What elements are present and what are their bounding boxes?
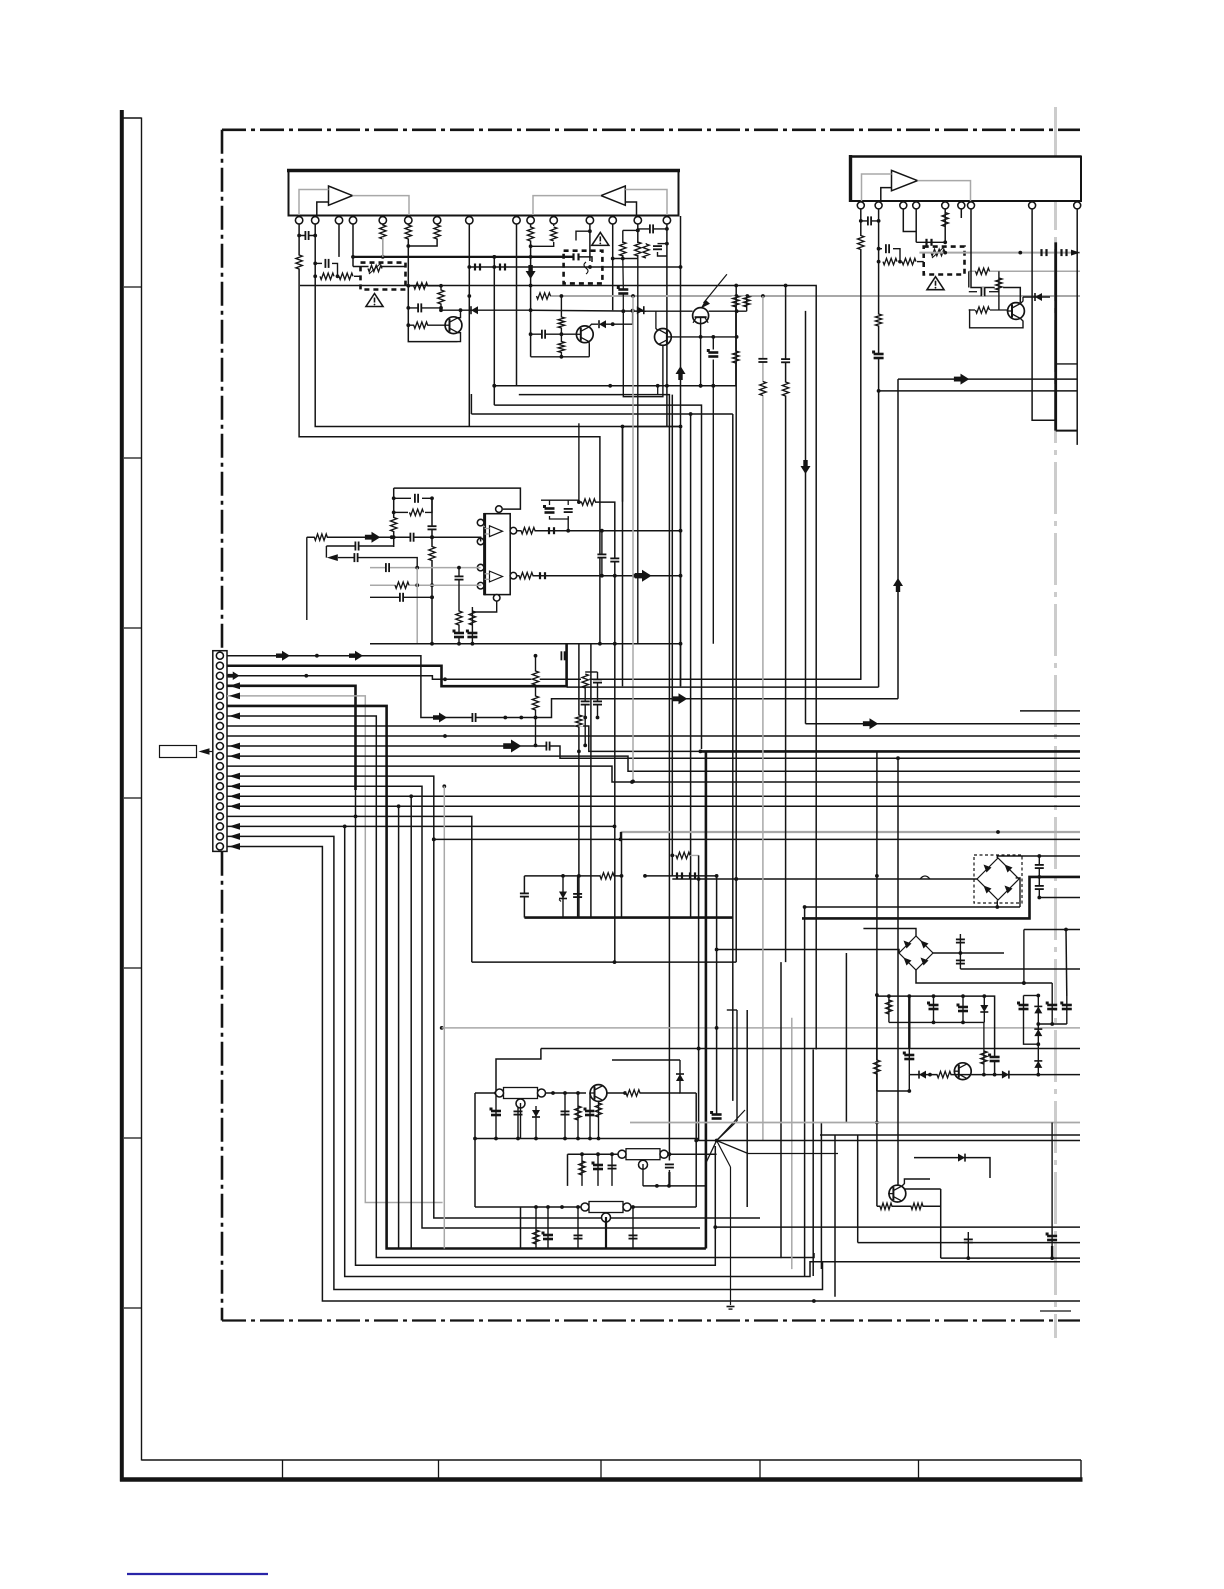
wire v736 drop [734,286,738,963]
diode bridge DB1 [974,855,1022,903]
wire C56 net [933,996,935,1022]
wire R26 row [969,309,975,311]
wire hop glyph [920,876,930,879]
wire rail y391 [879,390,1078,392]
left ruler tick 7 [124,1307,142,1309]
page border thin inner left rule [141,118,143,1461]
wire h1022 [889,1021,985,1025]
wire bridge2 top [863,929,916,937]
wire x432 rail [430,498,434,643]
rail arrow L13 [229,773,240,780]
dash-dot boundary top [222,129,1080,132]
diode D1 [471,306,478,314]
wire U3 pin6 drop [960,209,962,218]
wire y502 row [579,502,615,644]
capacitor C67 [546,742,550,751]
resistor R7 [414,283,428,289]
wire gray in B [370,583,481,587]
op-amp U1 left channel triangle [329,186,353,205]
left ruler tick 5 [124,967,142,969]
rail arrow L16 [229,803,240,810]
wire v690 [689,412,693,917]
wire v835 [834,1135,836,1297]
capacitor C43 [781,359,790,363]
wire CN pin18 rail [227,826,1080,1276]
wire U2 left rail [392,488,396,547]
wire D6 net [535,1106,537,1139]
wire input stub drop [306,537,308,620]
wire CN pin20 rail [227,846,1080,1302]
wire cluster y876 left [524,874,621,878]
series capacitor C14 [1042,249,1047,256]
resistor R22 [902,258,916,264]
capacitor C38 [520,893,529,897]
trim arrow RV1 [369,263,381,274]
U2 amp B input wires [485,574,490,580]
diode D7 [676,1074,684,1081]
wire R13 stub [645,242,647,245]
wire row y855 [672,854,698,856]
resistor R19 [733,351,739,363]
wire C50 thick stub [668,1172,670,1186]
bottom ruler tick 5 [918,1460,920,1480]
resistor R3 [339,273,353,279]
wire v813 [812,1050,814,1277]
label box arrow [199,748,213,755]
star ray S to ground [717,1141,731,1306]
wire U1 pin9 drop [516,224,518,296]
wire out1 bypass up [567,517,569,531]
diode D4 [1035,293,1042,301]
wire Q1 emitter [458,333,461,342]
wire v846 [845,953,847,1123]
resistor R16 [558,342,564,353]
wire U3 pin1-2 cap row [861,219,881,223]
wire CN pin11 rail [227,756,1080,771]
left ruler tick 3 [124,627,142,629]
input arrow L [327,554,338,561]
wire U3 pin7 net [971,209,1020,303]
wire stair y395 [519,395,672,1161]
resistor R56 [875,314,881,326]
wire x1066 col [1065,930,1068,997]
wire stair y426 ext [623,426,681,428]
page border thick bottom rule [120,1477,1083,1482]
resistor R43 [595,1103,601,1117]
dash-dot boundary bottom [222,1319,1080,1321]
capacitor C55 [903,1052,915,1060]
wire R49 net [983,1022,985,1074]
wire Q8 area [896,756,900,1185]
resistor R35 [582,499,596,505]
wire branch x411 [410,796,412,1248]
wire reg1 feed [541,1047,1080,1051]
wire C19 row2 [422,497,432,499]
rail arrow L19 [229,833,240,840]
wire v698 low [697,855,701,1140]
wire U3 pin5 net [943,209,947,244]
wire C44 net [495,1093,497,1139]
left ruler tick 6 [124,1137,142,1139]
diode bridge DB2 [899,936,933,970]
wire R43 net [598,1102,600,1139]
capacitor C16 [981,287,985,296]
capacitor C28 [543,505,555,513]
wire C52 net [577,1207,579,1249]
wire RG2 bottom [642,1164,644,1186]
wire R24 riser [968,271,970,287]
wire h1135 [820,1134,1080,1136]
wire R28 row [394,511,408,513]
transistor Q2 [576,326,594,343]
capacitor C37 [1035,885,1044,889]
capacitor C30 [597,554,606,558]
wire C16 row2 [989,291,999,293]
wire gray v633 [631,296,635,783]
wire CN pin4 rail thick [227,686,356,790]
wire R8 row [408,324,445,326]
wire Q6 right [607,1091,680,1095]
trim resistor RV1 [368,265,382,271]
wire v821 [820,1123,822,1270]
wire U2 bottom bus [370,642,681,646]
wire row y285 long [300,284,816,288]
capacitor C56 [927,1002,939,1010]
wire stair y386 drop [492,255,496,405]
wire rail y969 [960,968,1080,970]
rail arrow 1c [433,713,447,723]
wire bus y257 thick [353,255,573,259]
wire stair y405 [494,405,701,749]
wire arrow rail y379 [898,378,1077,380]
wire Q1 collector riser [440,286,442,308]
resistor R41 [575,1106,581,1120]
wire v804 low [804,907,806,1276]
wire right pair stub [1024,928,1080,932]
capacitor C17 [872,351,884,359]
wire bridge cap column [1037,856,1041,899]
wire C19 row [394,497,411,499]
capacitor C39 [573,893,582,897]
wire caps top rail [549,500,551,505]
wire R12 top [622,230,624,243]
wire loop rail y907 [803,905,1020,909]
wire gray bus y296 [543,294,1080,298]
capacitor C68 [617,286,629,294]
wire U1 pin10 net [529,224,533,357]
resistor R34 [521,528,535,534]
wire CN pin2 rail thick [227,644,567,687]
wire Q4 row [709,309,747,313]
wire C51 net [547,1207,549,1249]
wire cap row y242 [916,241,945,243]
wire v716 upper [715,876,719,1117]
capacitor C11 [867,216,871,225]
wire U1 pin15 drop [665,224,669,427]
wire bridge1 bottom loop [996,900,998,907]
wire C49 net [611,1154,613,1186]
U1 right feedback wire [625,190,667,216]
wire R12 link [623,229,640,233]
connector CN1 body [213,651,227,852]
wire v805 [805,311,807,724]
diode D11 [1034,1006,1042,1013]
wire C10 net [712,337,714,350]
transistor Q6 [589,1085,607,1102]
wire D2 to bus [606,309,634,326]
power arrow up 2 [893,578,903,592]
wire Q8 collector [902,1179,930,1186]
resistor R31 [395,582,409,588]
resistor R12 [620,242,626,256]
U2 amp A triangle [490,526,503,537]
gray fold chain line [1054,107,1057,1338]
wire C39 net [577,876,579,918]
wire Q3 collector up [656,311,659,331]
wire CN pin5 rail gray [227,696,443,1203]
bottom ruler tick 1 [282,1460,284,1480]
capacitor C24 [455,576,464,580]
wire Q2 bottom rail [531,356,590,358]
resistor R1 [296,255,302,269]
diode D14 [958,1154,965,1162]
wire nested stub 1 [1056,363,1078,365]
wire loop y546 drop [325,546,327,558]
capacitor C12 [885,244,889,253]
bottom ruler tick 2 [438,1460,440,1480]
wire h1010 [727,1009,737,1011]
wire CN pin3 rail [227,674,862,681]
wire thick bus y751 [699,750,1081,754]
wire out1 x601 drop [600,531,604,578]
power arrow down [801,460,811,474]
wire CN pin19 rail [227,836,823,1289]
wire reg1 feed step [496,1049,541,1094]
bus arrow y698 [672,693,687,704]
wire Q2 collector [589,324,598,327]
wire Q8 base row [877,1205,941,1207]
transistor Q1 [444,317,462,334]
resistor R40 [782,382,788,396]
wire R ladder bottoms [613,255,625,260]
wire stair drop 622 [622,427,624,502]
rail arrow 10 [503,740,521,753]
series capacitor C15 [1062,249,1067,256]
capacitor C65 [593,701,602,705]
wire reg3 row [475,1205,696,1209]
trim arrow RV2 [932,247,944,258]
resistor R8 [414,322,428,328]
wire v909 low [908,1075,910,1091]
resistor R58 [576,715,582,727]
wire diode row y311 ext [531,309,646,313]
wire R17 to y385 [735,307,737,386]
wire Q4 down leg [700,317,702,385]
resistor R21 [883,258,897,264]
op-amp IC U2 outline [485,513,511,595]
wire Q3 base row [672,335,739,339]
wire v940 [940,1189,942,1258]
star junction rays [696,1139,1080,1143]
wire CN pin15 rail [227,794,1080,798]
wire reg3 right up [701,1206,703,1208]
wire v876 drop [875,751,879,1206]
op-amp U1 right channel triangle [601,186,625,205]
wire U1 pin14 stub [636,224,640,243]
wire thick right bus [802,877,1080,919]
wire R18 to y311 [746,296,748,311]
resistor R28 [410,509,424,515]
wire D8 net [983,996,985,1022]
wire pin11 join [553,224,555,226]
wire v817 [815,286,817,1050]
wire U1 pin4 stub [351,224,355,267]
wire pin9 gray drop [516,296,518,386]
wire v747 [746,1010,748,1207]
wire v696 link [694,1093,698,1207]
capacitor C57 [957,1004,969,1012]
capacitor C58 [988,1054,1000,1062]
series capacitor C6 [574,253,579,260]
capacitor C45 [514,1111,523,1115]
rail arrow 1a [276,651,290,661]
wire caps top rail2 [567,500,569,505]
diode D12 [1034,1029,1042,1036]
wire U1 pin5 gray drop [382,237,384,257]
capacitor C40 [956,939,965,943]
diode D13 [1034,1061,1042,1068]
wire gray link x444 [440,786,444,1248]
bottom ruler tick 4 [759,1460,761,1480]
zener diode D5 [559,892,567,899]
wire h1258 [941,1256,1080,1260]
wire x621 riser [620,832,624,918]
wire RN stub597 [585,671,597,673]
capacitor C9 [541,330,545,339]
power arrow down 2 [526,265,536,279]
resistor R54 [582,674,588,688]
wire R28 row2 [425,498,432,512]
series capacitor C34 [677,872,682,879]
wire U1 pin12 net [588,224,592,261]
wire v590 [590,644,592,918]
series capacitor C4 [475,264,480,271]
trim pot box A [361,263,406,290]
wire C55 net [908,1048,910,1075]
wire h1189 [904,1188,941,1190]
wire cap to R ladder [332,263,339,278]
resistor R18 [744,296,750,307]
isolation box B [564,251,603,284]
capacitor C71 [354,553,358,562]
wire CN pin6 rail thick [227,706,706,1249]
page border top cap [120,117,142,119]
wire bridge1 row [672,877,977,881]
rail arrow 3 [228,672,240,681]
capacitor C49 [608,1165,617,1169]
wire x524 drop [523,876,525,918]
wire star column top [578,423,580,502]
wire R25 net [998,271,1000,310]
wire bridge right stub [1016,878,1020,907]
box B glyph [584,262,588,274]
bottom right frame cap [1080,1460,1082,1480]
trim pot box C [924,247,965,275]
U1 pin row [295,217,670,224]
wire v680 low [679,216,683,686]
wire R22 to box [917,261,924,263]
wire CN pin13 rail [227,776,760,1218]
wire U3 pin8 net [1032,209,1056,420]
resistor R24 [976,268,990,274]
dash-dot boundary left [221,130,224,1321]
resistor R47 [937,1071,951,1077]
rail arrow L11 [229,753,240,760]
capacitor C25 [453,630,465,638]
resistor R38 [600,873,614,879]
wire diode row y310 [439,308,530,312]
wire C45 net [517,1093,519,1139]
wire C68 tail [622,295,624,311]
wire C8 bottom [658,252,667,256]
wire pin1-pin2 coupling [299,234,317,238]
wire CN pin9 rail [227,734,1080,738]
wire C8 link [658,243,667,245]
series capacitor C13 [927,239,932,246]
resistor R48 [874,1060,880,1074]
capacitor C42 [758,358,767,362]
capacitor C33 [472,713,476,722]
wire Q2 bias chain [560,294,564,359]
op-amp U3 triangle [892,170,918,190]
capacitor C29 [564,508,573,512]
wire stair y414 [471,413,732,415]
U3 output wire [918,181,971,201]
wire pin2 cap branch [315,262,322,264]
capacitor C52 [574,1235,583,1239]
blue reference line [127,1573,268,1575]
wire U1 pin8 drop [467,224,471,427]
transistor Q8 [888,1185,906,1202]
wire feeder step [620,832,622,839]
regulator RG2 [618,1149,668,1170]
wire gray in A [370,566,481,570]
resistor R42 [626,1090,640,1096]
wire thick v909 [908,996,910,1048]
wire bridge2 right [933,951,1004,955]
warning triangle B [592,232,609,245]
wire to trim box [354,275,361,277]
star ray NE [717,1121,737,1141]
rail arrow L20 [229,843,240,850]
wire D5 net [561,874,565,918]
wire C16 row [969,291,977,293]
wire C3 row [408,306,443,310]
wire U3 pin3 drop [903,209,916,232]
star ray SW [706,1141,717,1164]
wire v578 [577,644,581,918]
wire h1060 [612,1059,680,1061]
power arrow up [676,366,686,380]
resistor R9 [438,290,444,304]
page border thin bottom rule [142,1459,1082,1461]
signal arrow mid [863,718,878,729]
capacitor C32 [610,558,619,562]
wire CN pin14 rail [227,784,700,1228]
zener tick [559,900,561,902]
resistor R49 [981,1051,987,1064]
trim resistor RV2 [931,249,945,255]
